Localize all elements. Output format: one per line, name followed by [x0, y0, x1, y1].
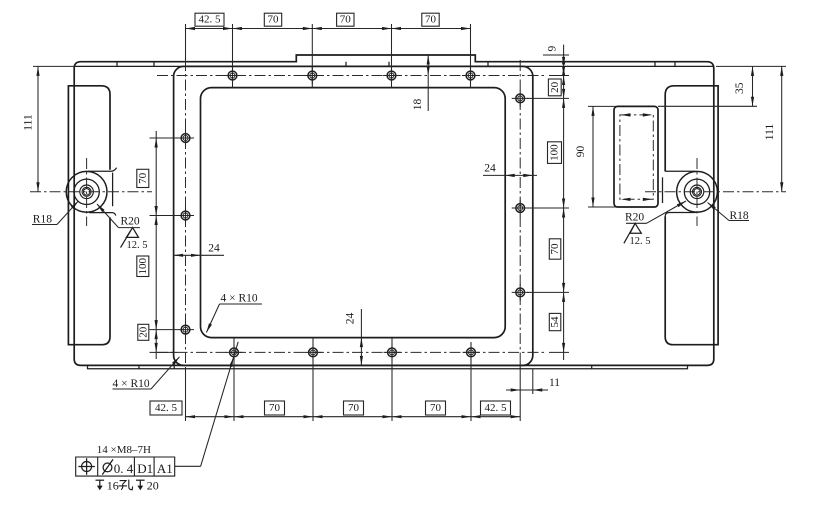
- right boss circle 3: [690, 185, 704, 199]
- bottom hole row centerline: [157, 351, 546, 353]
- right hole column centerline: [519, 60, 521, 363]
- right dim box 70: [549, 239, 561, 259]
- svg-text:R18: R18: [33, 214, 52, 226]
- surface finish symbol left: [121, 228, 139, 248]
- right boss circle 5: [694, 189, 700, 195]
- svg-text:18: 18: [412, 99, 424, 111]
- svg-text:42. 5: 42. 5: [199, 14, 222, 26]
- dim 11 line: [506, 389, 548, 391]
- window dashed rect corner arrows: [621, 113, 631, 116]
- right boss outer circle: [677, 171, 718, 212]
- dim 24 right arrows: [505, 174, 515, 177]
- top dim box 70 b: [337, 13, 354, 26]
- left boss circle 3: [80, 185, 94, 199]
- dim 90 arrows: [591, 106, 594, 116]
- hole top row 1: [224, 67, 241, 84]
- svg-text:20: 20: [147, 478, 159, 492]
- svg-text:9: 9: [547, 45, 559, 51]
- hole left column 1: [177, 130, 194, 147]
- fcf leader: [175, 465, 201, 467]
- bottom dim line: [186, 416, 521, 418]
- top dim line: [186, 28, 471, 30]
- dim 18 arrows: [427, 55, 430, 65]
- svg-text:A1: A1: [157, 461, 173, 476]
- svg-text:70: 70: [340, 14, 352, 26]
- svg-text:D1: D1: [137, 461, 153, 476]
- left boss circle 2: [74, 179, 99, 204]
- dim 24 right line: [483, 174, 537, 176]
- top dim extension lines: [186, 24, 471, 88]
- top dim box 42.5: [195, 13, 224, 26]
- hole right column 3: [512, 284, 529, 301]
- dim 35 line: [752, 66, 754, 106]
- svg-text:70: 70: [269, 402, 281, 414]
- hole left column 2: [177, 207, 194, 224]
- dim 111 left extension line: [33, 65, 75, 67]
- dim 111 left line: [37, 66, 39, 191]
- left boss circle 5: [83, 189, 89, 195]
- bolt flange outer rounded rect: [174, 66, 533, 365]
- bottom dim box 70 c: [426, 401, 446, 415]
- hole right column 2: [512, 200, 529, 217]
- hole bottom row 1: [226, 344, 243, 361]
- svg-text:4 × R10: 4 × R10: [221, 293, 258, 305]
- left dim arrows: [155, 138, 158, 148]
- left boss pocket edges: [88, 168, 117, 216]
- svg-text:90: 90: [575, 146, 587, 158]
- right dim box 54: [549, 313, 561, 330]
- svg-text:70: 70: [549, 243, 561, 255]
- dim 35 arrows: [751, 66, 754, 76]
- right dim box 100: [548, 142, 562, 164]
- dim 24 left arrows: [174, 254, 184, 257]
- left dim extension lines: [150, 138, 178, 352]
- svg-text:20: 20: [549, 81, 561, 93]
- hole top row 4: [462, 67, 479, 84]
- left boss circle 4: [82, 187, 91, 196]
- svg-text:100: 100: [549, 144, 561, 161]
- right mounting tab: [665, 86, 718, 345]
- svg-text:70: 70: [425, 14, 437, 26]
- inner opening rounded rect: [201, 88, 506, 338]
- right dim line: [563, 45, 565, 360]
- bottom dim box 70 a: [265, 401, 285, 415]
- dim 11 arrows: [511, 388, 521, 391]
- svg-text:111: 111: [23, 114, 35, 131]
- svg-text:11: 11: [549, 377, 560, 389]
- svg-text:70: 70: [348, 402, 360, 414]
- bottom dim arrows: [186, 415, 196, 418]
- left boss outer circle: [66, 171, 107, 212]
- svg-text:24: 24: [208, 243, 220, 255]
- dim 111 right extension line: [716, 65, 786, 67]
- top dim arrows: [186, 27, 196, 30]
- left mounting tab: [68, 86, 110, 345]
- left hole column centerline: [185, 60, 187, 363]
- right dim extension lines: [527, 55, 569, 352]
- window outer rect: [614, 106, 658, 207]
- right boss circle 4: [693, 187, 702, 196]
- hole right column 1: [512, 90, 529, 107]
- right boss circle 2: [684, 179, 709, 204]
- svg-text:111: 111: [764, 124, 776, 141]
- fcf frame: [76, 457, 175, 476]
- svg-text:42. 5: 42. 5: [155, 402, 178, 414]
- svg-text:R20: R20: [121, 216, 140, 228]
- plate bottom lip: [88, 365, 688, 368]
- hole bottom row 2: [305, 344, 322, 361]
- left boss centerlines: [30, 158, 152, 226]
- dim 111 right arrows: [780, 66, 783, 76]
- bottom dim box 42.5 right: [481, 401, 511, 415]
- svg-text:R20: R20: [625, 211, 644, 223]
- svg-text:35: 35: [734, 82, 746, 94]
- depth symbol 1: [96, 479, 105, 481]
- svg-text:12. 5: 12. 5: [127, 240, 148, 251]
- svg-text:42. 5: 42. 5: [485, 402, 508, 414]
- window dashed inner rect: [620, 115, 653, 199]
- svg-text:24: 24: [484, 163, 496, 175]
- svg-text:20: 20: [137, 326, 149, 338]
- bottom dim extension lines: [186, 338, 521, 421]
- dim 90 extension lines: [588, 106, 616, 207]
- dim 111 left arrows: [36, 66, 39, 76]
- dim 111 right line: [781, 66, 783, 191]
- surface finish symbol right: [624, 223, 641, 243]
- plate top edge ticks: [117, 62, 675, 67]
- glyph kong (hole): [119, 480, 133, 490]
- svg-text:100: 100: [137, 258, 149, 275]
- right dim box 20: [548, 79, 561, 96]
- left dim box 70: [137, 169, 149, 187]
- right dim arrows: [562, 55, 565, 65]
- left dim line: [155, 131, 157, 359]
- svg-text:70: 70: [430, 402, 442, 414]
- dim 35 extension line: [658, 105, 757, 107]
- top dim box 70 c: [422, 13, 439, 26]
- svg-text:70: 70: [268, 14, 280, 26]
- svg-text:24: 24: [345, 313, 357, 325]
- left dim box 100: [137, 256, 149, 277]
- plate outer outline: [74, 55, 714, 365]
- dim 90 line: [592, 106, 594, 207]
- top hole row centerline: [157, 75, 546, 77]
- fcf position symbol: [82, 462, 92, 472]
- dim 18 line: [427, 55, 429, 111]
- dim 24 bottom line: [360, 309, 362, 365]
- top dim box 70 a: [264, 13, 281, 26]
- svg-text:14 ×M8–7H: 14 ×M8–7H: [97, 444, 151, 456]
- dim 24 bottom arrows: [360, 338, 363, 348]
- left dim box 20: [138, 324, 149, 340]
- dim 24 left line: [174, 254, 224, 256]
- bottom dim box 42.5 left: [150, 401, 182, 415]
- dim 11 extension line: [532, 369, 534, 394]
- svg-text:16: 16: [107, 478, 119, 492]
- right boss centerlines: [645, 158, 786, 226]
- svg-text:70: 70: [137, 172, 149, 184]
- right boss pocket edges: [663, 171, 696, 216]
- hole left column 3: [177, 321, 194, 338]
- hole top row 3: [383, 67, 400, 84]
- svg-text:4 × R10: 4 × R10: [113, 378, 150, 390]
- svg-text:12. 5: 12. 5: [630, 236, 651, 247]
- plate top inner edge line: [74, 65, 714, 67]
- depth symbol 2: [136, 479, 145, 481]
- fcf diameter symbol: [103, 463, 112, 472]
- svg-text:54: 54: [549, 316, 561, 328]
- hole top row 2: [304, 67, 321, 84]
- hole bottom row 3: [384, 344, 401, 361]
- bottom dim box 70 b: [344, 401, 364, 415]
- hole bottom row 4: [463, 344, 480, 361]
- svg-text:0. 4: 0. 4: [114, 461, 134, 476]
